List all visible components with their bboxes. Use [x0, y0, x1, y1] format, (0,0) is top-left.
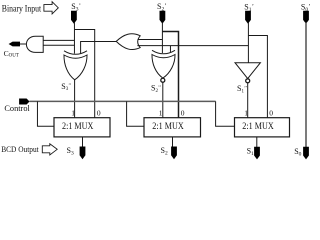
wire S3' branch to MUX1 0-input	[74, 29, 94, 117]
wire AND input 1	[43, 39, 74, 41]
svg-text:2:1 MUX: 2:1 MUX	[62, 122, 94, 132]
svg-text:S2’: S2’	[157, 2, 167, 13]
xnor bubble	[161, 78, 165, 82]
mux M2 box	[144, 118, 201, 137]
input terminal S2'	[160, 11, 166, 24]
xnor gate S2'' input arc	[152, 50, 175, 54]
output terminal S1	[254, 147, 260, 160]
input terminal S3'	[71, 11, 77, 24]
output terminal S3	[80, 147, 86, 160]
output terminal S2	[171, 147, 177, 160]
wire select MUX2	[127, 101, 144, 126]
svg-text:BCD Output: BCD Output	[1, 145, 39, 154]
bcd output block arrow	[42, 144, 57, 155]
wire AND input 2	[43, 44, 74, 46]
wire XNOR output to MUX2 1-input	[162, 82, 164, 117]
inverter bubble	[246, 79, 250, 83]
wire XOR1 output to MUX1 1-input	[74, 80, 76, 118]
and gate (carry out)	[26, 36, 43, 52]
xnor gate S2'' body	[152, 55, 175, 79]
wire MUX1 output	[82, 137, 84, 147]
svg-text:2:1 MUX: 2:1 MUX	[242, 122, 274, 132]
svg-text:Control: Control	[4, 103, 30, 113]
svg-text:0: 0	[269, 109, 273, 118]
input terminal S0'	[303, 11, 309, 24]
xor gate S3'' input arc	[64, 51, 87, 55]
svg-text:S0: S0	[294, 147, 301, 158]
svg-text:S1’’: S1’’	[237, 84, 247, 94]
wire MUX3 output	[256, 137, 258, 147]
svg-text:S2: S2	[161, 146, 168, 157]
wire XNOR input B drop	[169, 46, 171, 53]
svg-text:1: 1	[159, 109, 163, 118]
input terminal S1'	[245, 11, 251, 24]
wire Cout	[20, 43, 27, 45]
wire S2' vertical to XNOR input A	[161, 23, 163, 54]
svg-text:Binary Input: Binary Input	[2, 4, 42, 14]
svg-text:2:1 MUX: 2:1 MUX	[152, 122, 184, 132]
mux M1 box	[54, 118, 110, 137]
wire OR input 2 from S1' (long)	[137, 45, 248, 47]
svg-text:COUT: COUT	[4, 49, 19, 58]
output terminal Cout	[9, 42, 20, 47]
wire S3' vertical to XOR1 input A	[73, 23, 75, 54]
svg-text:1: 1	[244, 109, 248, 118]
wire select MUX1	[37, 101, 54, 126]
svg-text:S3’’: S3’’	[61, 82, 71, 92]
wire select MUX3	[216, 101, 235, 126]
control terminal	[19, 99, 29, 105]
wire S1' vertical to inverter	[247, 23, 249, 63]
output terminal S0	[303, 147, 309, 160]
wire S0' vertical (pass-through)	[305, 23, 307, 148]
binary input block arrow	[44, 2, 58, 14]
svg-text:S3: S3	[67, 146, 74, 157]
wire S1' branch to MUX3 0-input	[248, 36, 267, 118]
wire S2' branch to MUX2 0-input	[162, 31, 178, 117]
svg-text:0: 0	[181, 109, 185, 118]
mux M3 box	[235, 118, 290, 137]
wire OR output to XOR1 input B	[81, 42, 117, 54]
svg-text:1: 1	[71, 109, 75, 118]
or gate U2	[116, 34, 140, 50]
xor gate S3'' body	[64, 55, 87, 80]
svg-text:S2’’: S2’’	[151, 84, 161, 94]
svg-text:0: 0	[97, 109, 101, 118]
wire inverter output to MUX3 1-input	[247, 83, 249, 118]
wire MUX2 output	[172, 137, 174, 147]
wire OR input 1 from S2'	[138, 39, 163, 41]
svg-text:S1: S1	[247, 146, 254, 157]
inverter S1'' triangle	[235, 63, 260, 79]
wire control bus	[29, 100, 215, 102]
